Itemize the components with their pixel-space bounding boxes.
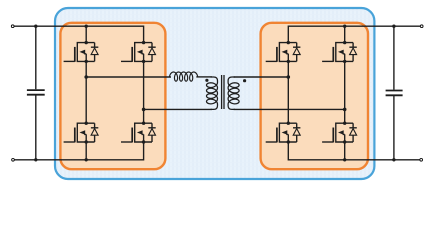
junction: left cap top: [34, 25, 37, 28]
transistor Q5 (MOSFET with body diode): [266, 41, 301, 63]
transistor Q1 (MOSFET with body diode): [64, 41, 99, 63]
junction: left cap bottom: [34, 158, 37, 161]
wire: leg1 source: [85, 142, 87, 160]
junction: right cap bottom: [392, 158, 395, 161]
transformer T1 secondary winding: [228, 77, 239, 109]
primary bridge box (orange): [60, 23, 165, 169]
wire: leg4 source: [344, 142, 346, 160]
transistor Q3 (MOSFET with body diode): [64, 122, 99, 144]
transformer T1 core: [222, 75, 224, 109]
wire: leg4 mid: [344, 61, 346, 123]
transistor Q6 (MOSFET with body diode): [322, 41, 357, 63]
junction: leg1 top rail: [85, 25, 88, 28]
transformer T1 primary winding: [207, 77, 218, 109]
node A: [84, 75, 88, 79]
transistor Q7 (MOSFET with body diode): [266, 122, 301, 144]
wire: left capacitor branch: [35, 26, 37, 160]
wire: node A to inductor: [86, 76, 171, 78]
wire: leg4 drain: [344, 26, 346, 42]
capacitor C2 plates: [386, 91, 403, 96]
terminal: input +: [11, 25, 14, 28]
transformer secondary polarity dot: [243, 79, 246, 82]
inductor L1: [170, 72, 198, 81]
wire: leg2 mid: [143, 61, 145, 123]
transistor Q2 (MOSFET with body diode): [121, 41, 156, 63]
transistor Q8 (MOSFET with body diode): [322, 122, 357, 144]
converter outline box (blue): [55, 8, 374, 179]
transistor Q4 (MOSFET with body diode): [121, 122, 156, 144]
node B: [142, 108, 146, 112]
terminal: input -: [12, 158, 15, 161]
wire: node B to transformer primary bottom: [144, 108, 212, 110]
junction: leg4 top rail: [343, 25, 346, 28]
wire: top-left rail: [13, 26, 144, 42]
secondary bridge box (orange): [261, 23, 368, 169]
wire: leg3 mid: [287, 61, 289, 123]
wire: transformer secondary bottom to node D: [234, 108, 345, 110]
capacitor C1 plates: [27, 90, 45, 95]
wire: top-right rail: [288, 26, 421, 42]
terminal: output -: [420, 158, 423, 161]
junction: right cap top: [392, 25, 395, 28]
junction: leg1 bottom rail: [85, 158, 88, 161]
transformer primary polarity dot: [205, 79, 208, 82]
junction: leg4 bottom rail: [343, 158, 346, 161]
terminal: output +: [420, 25, 423, 28]
wire: inductor to transformer primary: [196, 76, 212, 78]
node C: [287, 75, 291, 79]
wire: leg1 drain: [85, 26, 87, 42]
wire: bottom-left rail: [13, 142, 144, 160]
node D: [343, 108, 347, 112]
wire: right capacitor branch: [393, 26, 395, 160]
wire: leg1 mid: [85, 61, 87, 123]
wire: bottom-right rail: [288, 142, 421, 160]
wire: transformer secondary top to node C: [234, 76, 289, 78]
